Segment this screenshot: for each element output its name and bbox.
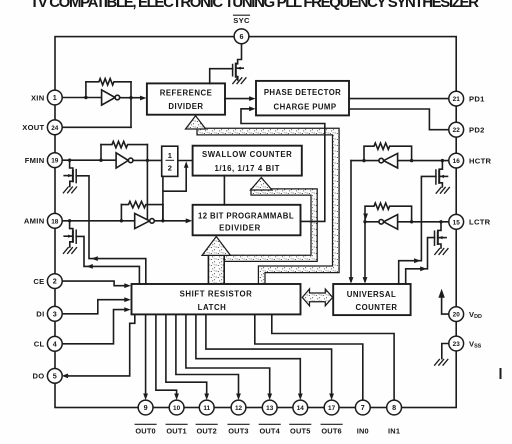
transistor Q3 (AMIN input clamp) xyxy=(64,221,76,247)
stipple bus: divider loop to swallow counter (inner wrap) xyxy=(224,189,317,262)
svg-text:UNIVERSAL: UNIVERSAL xyxy=(347,290,397,299)
wire Q1 gate to reference divider top xyxy=(210,69,233,84)
svg-text:23: 23 xyxy=(453,341,461,348)
pin circle 22 xyxy=(449,122,464,137)
wire phase detector to PD1 xyxy=(349,98,449,100)
box: 1/2 prescaler xyxy=(162,146,178,176)
node AMIN link from FMIN xyxy=(146,219,149,222)
wire feedback loop left (XIN) xyxy=(85,82,87,98)
pin circle 15 xyxy=(449,214,464,229)
wire FMIN inverter output to 1/2 box xyxy=(133,159,162,161)
arrowhead down into universal counter (HCTR) xyxy=(349,277,354,284)
wire node to reference divider xyxy=(131,97,142,99)
svg-text:3: 3 xyxy=(53,309,57,318)
wire Q2 gate down and over to latch top xyxy=(76,176,146,284)
transistor Q1 (SYC standby switch) xyxy=(233,64,244,80)
svg-text:OUT4: OUT4 xyxy=(259,427,280,436)
wire HCTR inverter output to corner xyxy=(351,160,379,162)
pin circle 10 xyxy=(169,400,184,415)
node HCTR loop left xyxy=(362,159,365,162)
pin circle 11 xyxy=(199,400,214,415)
svg-text:9: 9 xyxy=(144,403,148,412)
arrowhead into phase detector lower input xyxy=(249,106,256,111)
wire latch to pin 9 (OUT0) xyxy=(145,314,147,397)
arrowhead VDD up xyxy=(438,289,444,298)
pin circle 3 xyxy=(47,306,62,321)
pin circle 19 xyxy=(47,153,62,168)
wire FMIN node down to AMIN line xyxy=(146,145,148,221)
svg-text:12: 12 xyxy=(235,405,243,412)
pin circle 14 xyxy=(293,400,308,415)
svg-text:PD1: PD1 xyxy=(469,94,485,103)
node AMIN feedback left xyxy=(120,219,123,222)
resistor R3 (AMIN feedback) xyxy=(121,201,162,207)
inverter U10 (HCTR buffer, faces left) xyxy=(379,153,398,168)
svg-text:16: 16 xyxy=(453,158,461,165)
ground (below Q4) xyxy=(436,187,449,193)
node SYC circle feed: vertical from pin 6 to transistor xyxy=(238,44,242,64)
svg-text:OUT6: OUT6 xyxy=(321,427,342,436)
label OUT2 (with overline) xyxy=(196,424,217,435)
pin circle 1 xyxy=(47,90,62,105)
wire AMIN feedback right vertical xyxy=(162,205,164,221)
box: SWALLOW COUNTER U3 xyxy=(193,146,302,176)
stipple arrow into reference divider bottom xyxy=(186,116,206,129)
svg-text:LATCH: LATCH xyxy=(198,303,227,312)
arrowhead into phase detector upper input xyxy=(249,96,256,101)
svg-text:2: 2 xyxy=(53,277,57,286)
wire latch to pin 14 (OUT5) xyxy=(196,314,300,397)
svg-text:8: 8 xyxy=(392,403,396,412)
svg-text:CL: CL xyxy=(34,340,45,349)
svg-text:10: 10 xyxy=(173,405,181,412)
ground (below Q2) xyxy=(63,187,76,193)
pin circle 21 xyxy=(449,91,464,106)
pin circle 24 xyxy=(47,120,62,135)
box: UNIVERSAL COUNTER U6 xyxy=(333,284,410,315)
svg-text:OUT1: OUT1 xyxy=(166,427,187,436)
wire CL into latch xyxy=(61,310,127,344)
wire DO from latch bottom xyxy=(66,314,135,376)
svg-text:XIN: XIN xyxy=(31,93,45,102)
inverter U11 (LCTR buffer, faces left) xyxy=(379,215,398,230)
inverter U8 (FMIN amp) xyxy=(116,153,133,168)
svg-text:1/16, 1/17 4 BIT: 1/16, 1/17 4 BIT xyxy=(214,164,280,173)
arrowhead CL into latch xyxy=(124,307,131,312)
svg-text:IN0: IN0 xyxy=(357,427,369,436)
wire VSS to ground xyxy=(442,344,449,359)
svg-text:SWALLOW COUNTER: SWALLOW COUNTER xyxy=(202,150,292,159)
pin circle 5 xyxy=(47,369,62,384)
svg-text:21: 21 xyxy=(453,96,461,103)
node XIN feedback right / XOUT junction xyxy=(129,96,132,99)
svg-text:11: 11 xyxy=(203,405,210,412)
node FMIN feedback left xyxy=(99,159,102,162)
arrowhead on AMIN-gate wire pointing left xyxy=(86,264,93,269)
wire latch to pin 10 (OUT1) xyxy=(156,314,177,397)
resistor R2 (FMIN feedback) xyxy=(101,141,147,147)
box: PHASE DETECTOR CHARGE PUMP U2 xyxy=(256,81,349,116)
ground (below Q5) xyxy=(435,249,448,255)
arrowhead on Q4 gate wire pointing right xyxy=(414,258,421,263)
wire LCTR row xyxy=(384,221,449,223)
node LCTR loop right xyxy=(410,220,413,223)
node AMIN bypass junction xyxy=(161,219,164,222)
outer border rectangle through pin circles xyxy=(55,37,456,408)
wire latch to pin 7 (IN0) xyxy=(255,314,363,400)
inverter U7 (crystal oscillator) xyxy=(102,90,120,105)
svg-text:EDIVIDER: EDIVIDER xyxy=(219,223,261,232)
pin circle 13 xyxy=(262,400,277,415)
wire AMIN feedback left vertical xyxy=(120,205,122,221)
svg-text:15: 15 xyxy=(453,219,461,226)
node XIN feedback left xyxy=(84,96,87,99)
node LCTR loop left xyxy=(363,220,366,223)
pin circle 7 xyxy=(355,400,370,415)
svg-text:VDD: VDD xyxy=(469,310,482,320)
stipple bus: latch to reference divider (outer wrap) xyxy=(197,128,339,284)
wire 1/2 box to swallow counter xyxy=(178,160,193,162)
wire HCTR feedback loop xyxy=(364,143,412,161)
node LCTR transistor tap xyxy=(439,220,442,223)
ground (below Q1) xyxy=(233,78,246,84)
svg-text:VSS: VSS xyxy=(469,339,482,349)
pin circle 2 xyxy=(47,274,62,289)
svg-text:CHARGE PUMP: CHARGE PUMP xyxy=(274,103,337,112)
svg-text:REFERENCE: REFERENCE xyxy=(160,89,213,98)
pin circle 20 xyxy=(449,307,464,322)
node AMIN pin xyxy=(68,219,71,222)
arrowhead down on LCTR loop left xyxy=(363,214,368,221)
wire LCTR to universal counter xyxy=(364,222,366,281)
arrowhead CE into latch xyxy=(124,283,131,288)
wire XIN to inverter input xyxy=(63,97,101,99)
ground (VSS) xyxy=(435,359,448,365)
pin circle 23 xyxy=(449,336,464,351)
svg-text:DI: DI xyxy=(36,310,44,319)
wire DI into latch xyxy=(61,300,127,314)
wire XOUT xyxy=(63,126,131,128)
label OUT0 (with overline) xyxy=(135,424,156,435)
wire HCTR to universal counter xyxy=(350,161,352,281)
wire CE into latch xyxy=(61,281,127,286)
svg-text:5: 5 xyxy=(53,371,57,380)
node FMIN feedback right xyxy=(146,159,149,162)
svg-text:7: 7 xyxy=(361,403,365,412)
svg-text:HCTR: HCTR xyxy=(469,156,492,165)
pin circle 17 xyxy=(324,400,339,415)
wire AMIN to inverter xyxy=(61,220,134,222)
wire reference divider to phase detector xyxy=(225,98,250,100)
wire Q4 gate down to universal counter out xyxy=(399,176,436,284)
svg-text:14: 14 xyxy=(297,405,305,412)
arrowhead DO into pin 5 xyxy=(62,374,69,379)
svg-text:OUT0: OUT0 xyxy=(135,427,156,436)
svg-text:2: 2 xyxy=(168,164,172,173)
svg-text:13: 13 xyxy=(266,405,274,412)
wire inverter output to node xyxy=(120,97,131,99)
svg-text:OUT2: OUT2 xyxy=(196,427,217,436)
svg-text:DIVIDER: DIVIDER xyxy=(168,102,203,111)
svg-text:XOUT: XOUT xyxy=(22,123,44,132)
node HCTR loop right xyxy=(410,159,413,162)
svg-text:4: 4 xyxy=(53,339,57,348)
svg-text:17: 17 xyxy=(328,405,336,412)
svg-text:OUT5: OUT5 xyxy=(290,427,311,436)
wire latch to pin 12 (OUT3) xyxy=(176,314,239,397)
wire feedback right side down to XOUT xyxy=(130,82,132,128)
pin circle 6 xyxy=(234,29,249,44)
svg-text:IN1: IN1 xyxy=(388,427,400,436)
transistor Q4 (HCTR clamp) xyxy=(436,161,448,187)
wire latch to pin 8 (IN1) xyxy=(272,314,394,400)
wire latch to pin 11 (OUT2) xyxy=(166,314,207,397)
arrowhead DI into latch xyxy=(124,297,131,302)
svg-text:22: 22 xyxy=(453,127,461,134)
arrowhead down into universal counter (LCTR) xyxy=(363,277,368,284)
pin circle 16 xyxy=(449,153,464,168)
box: REFERENCE DIVIDER U1 xyxy=(147,83,225,114)
wire latch to pin 17 (OUT6) xyxy=(206,314,332,397)
label OUT3 (with overline) xyxy=(228,424,249,435)
svg-text:PHASE DETECTOR: PHASE DETECTOR xyxy=(264,88,341,97)
stipple double-headed arrow latch to universal counter xyxy=(302,289,332,306)
wire Q5 gate down to universal counter out xyxy=(406,238,435,284)
label OUT6 (with overline) xyxy=(321,424,342,435)
wire HCTR row xyxy=(384,160,449,162)
wire FMIN to inverter xyxy=(61,159,116,161)
arrowhead on Q5 gate wire pointing right xyxy=(420,266,427,271)
svg-text:FMIN: FMIN xyxy=(25,156,45,165)
stipple arrow into swallow counter bottom xyxy=(251,178,273,191)
svg-text:OUT3: OUT3 xyxy=(228,427,249,436)
svg-text:SYC: SYC xyxy=(233,16,250,25)
label OUT1 (with overline) xyxy=(166,424,187,435)
wire swallow counter to 12-bit divider xyxy=(223,176,225,205)
svg-text:24: 24 xyxy=(51,125,59,132)
pin circle 8 xyxy=(387,400,402,415)
pin circle 12 xyxy=(231,400,246,415)
inverter U9 (AMIN amp) xyxy=(135,213,155,228)
svg-text:LCTR: LCTR xyxy=(469,218,491,227)
arrowhead up into swallow input wire xyxy=(184,161,189,168)
transistor Q5 (LCTR clamp) xyxy=(435,222,447,248)
wire phase detector to PD2 xyxy=(349,109,449,130)
label SYC (with overline) xyxy=(233,15,250,25)
stray mark right margin xyxy=(500,369,502,378)
svg-text:CE: CE xyxy=(33,277,44,286)
resistor R1 (XIN feedback) xyxy=(86,79,131,85)
wire 12-bit divider output wrap to phase detector lower input xyxy=(241,109,325,222)
arrowhead into reference divider xyxy=(140,96,147,101)
arrowhead into 12-bit divider input xyxy=(186,218,193,223)
wire LCTR feedback loop xyxy=(365,203,412,222)
wire VDD arrow xyxy=(442,296,449,314)
pin circle 18 xyxy=(47,213,62,228)
node FMIN pin xyxy=(68,159,71,162)
pin circle 4 xyxy=(47,336,62,351)
node HCTR transistor tap xyxy=(441,159,444,162)
label OUT4 (with overline) xyxy=(259,424,280,435)
svg-text:AMIN: AMIN xyxy=(24,217,45,226)
svg-text:1: 1 xyxy=(53,93,57,102)
box: 12 BIT PROGRAMMABLE DIVIDER U4 xyxy=(193,205,301,236)
wire AMIN inverter output to 12-bit divider xyxy=(154,220,188,222)
svg-text:TV COMPATIBLE, ELECTRONIC TUNI: TV COMPATIBLE, ELECTRONIC TUNING PLL FRE… xyxy=(30,0,480,11)
wire latch to pin 13 (OUT4) xyxy=(186,314,270,397)
svg-text:SHIFT RESISTOR: SHIFT RESISTOR xyxy=(180,290,253,299)
transistor Q2 (FMIN input clamp) xyxy=(64,160,76,186)
svg-text:PD2: PD2 xyxy=(469,126,485,135)
svg-text:6: 6 xyxy=(240,32,244,41)
svg-text:12 BIT PROGRAMMABL: 12 BIT PROGRAMMABL xyxy=(198,212,294,221)
svg-text:18: 18 xyxy=(51,218,59,225)
svg-text:1: 1 xyxy=(168,151,172,160)
wire AMIN branch bypass up to swallow input xyxy=(163,166,186,221)
svg-text:DO: DO xyxy=(33,372,45,381)
arrowhead on FMIN-gate wire pointing left xyxy=(91,256,98,261)
label OUT5 (with overline) xyxy=(290,424,311,435)
wire Q3 gate down and over to latch top xyxy=(76,236,139,284)
svg-text:20: 20 xyxy=(453,312,461,319)
pin circle 9 xyxy=(138,400,153,415)
ground (below Q3) xyxy=(63,248,76,254)
stipple fat arrow from latch into 12-bit divider xyxy=(208,255,224,284)
svg-text:19: 19 xyxy=(51,158,59,165)
svg-text:COUNTER: COUNTER xyxy=(355,303,397,312)
wire LCTR inverter output to node xyxy=(365,221,379,223)
wire FMIN feedback left vertical xyxy=(100,145,102,161)
box: SHIFT RESISTOR LATCH U5 xyxy=(132,284,301,314)
